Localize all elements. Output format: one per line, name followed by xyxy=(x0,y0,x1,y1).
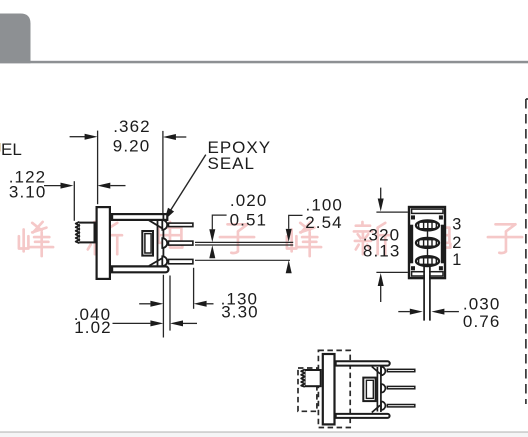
label EPOXY SEAL with leader xyxy=(164,138,271,220)
front view: corner tabs xyxy=(411,215,443,270)
side view: header chamfers xyxy=(149,220,163,266)
side view: pin 3 xyxy=(169,223,193,227)
svg-text:3: 3 xyxy=(452,216,461,234)
front view: bottom slot xyxy=(412,272,443,276)
dimension .320 / 8.13 xyxy=(376,188,408,302)
dimension .020 / 0.51 xyxy=(195,215,293,245)
watermark 峰新电子峰新电子 xyxy=(19,222,522,256)
text PANEL (cut) xyxy=(1,140,22,159)
front view: body outline xyxy=(409,207,445,278)
svg-text:2: 2 xyxy=(452,234,461,252)
dimension .130 / 3.30 xyxy=(139,268,213,338)
bottom view: actuator knob xyxy=(301,369,321,386)
svg-text:0.51: 0.51 xyxy=(230,211,268,230)
phantom panel outline (right edge) xyxy=(526,99,528,404)
svg-text:.362: .362 xyxy=(113,117,151,136)
bottom view: phantom panel around flange xyxy=(318,350,350,427)
dimension .122 / 3.10 xyxy=(44,181,126,221)
svg-text:8.13: 8.13 xyxy=(363,241,401,260)
svg-text:3.10: 3.10 xyxy=(9,183,47,202)
bottom view: flange bracket xyxy=(323,354,335,424)
svg-text:.020: .020 xyxy=(230,191,268,210)
svg-text:1.02: 1.02 xyxy=(74,318,112,337)
side view: pin 1 xyxy=(169,259,193,263)
svg-text:.030: .030 xyxy=(463,295,501,314)
svg-text:2.54: 2.54 xyxy=(305,213,343,232)
side view: header edges xyxy=(158,214,164,266)
gray header rule xyxy=(0,61,528,64)
bottom view: pin 2 xyxy=(387,386,415,388)
side view: bottom rail (rounded end) xyxy=(112,266,168,272)
svg-text:0.76: 0.76 xyxy=(463,312,501,331)
side view: flange bracket xyxy=(97,207,110,279)
svg-text:.100: .100 xyxy=(306,195,344,214)
pin number 2 xyxy=(452,234,461,252)
front view: top slot xyxy=(412,209,443,213)
bottom view: bottom rail (rounded end) xyxy=(336,414,390,418)
bottom view: pin 1 xyxy=(387,405,415,407)
bottom view: header edges xyxy=(377,367,381,413)
gray header tab xyxy=(0,14,31,64)
dimension .100 / 2.54 xyxy=(195,215,303,260)
bottom view: top rail (rounded end) xyxy=(336,361,390,365)
side view: pin bumps xyxy=(162,220,167,266)
svg-text:9.20: 9.20 xyxy=(113,137,151,156)
bottom view: seal window xyxy=(363,378,375,402)
bottom view: phantom around actuator xyxy=(298,368,317,411)
front view: terminal 1 xyxy=(416,256,439,266)
side view: top rail xyxy=(112,214,167,220)
front view: solder leads xyxy=(424,266,430,321)
svg-text:EL: EL xyxy=(1,140,22,159)
bottom view: pin bumps xyxy=(381,367,385,410)
front view: terminal 2 xyxy=(416,238,439,248)
pin number 3 xyxy=(452,216,461,234)
front view: terminal 3 xyxy=(416,220,439,230)
pin number 1 xyxy=(452,251,461,269)
front view: terminal links xyxy=(427,231,429,255)
dimension .040 / 1.02 xyxy=(113,276,198,331)
dimension .362 / 9.20 xyxy=(70,131,187,213)
bottom view: header chamfers xyxy=(372,367,380,413)
svg-text:3.30: 3.30 xyxy=(221,303,259,322)
svg-text:1: 1 xyxy=(452,251,461,269)
side view: actuator knob xyxy=(76,222,95,243)
side view: pin 2 xyxy=(169,241,193,245)
svg-text:SEAL: SEAL xyxy=(208,154,255,173)
bottom view: pin 3 xyxy=(387,369,415,371)
dimension .030 / 0.76 xyxy=(398,311,459,313)
front view: side ribs xyxy=(410,225,444,264)
gray footer rule xyxy=(0,431,528,437)
side view: seal window xyxy=(142,231,153,256)
